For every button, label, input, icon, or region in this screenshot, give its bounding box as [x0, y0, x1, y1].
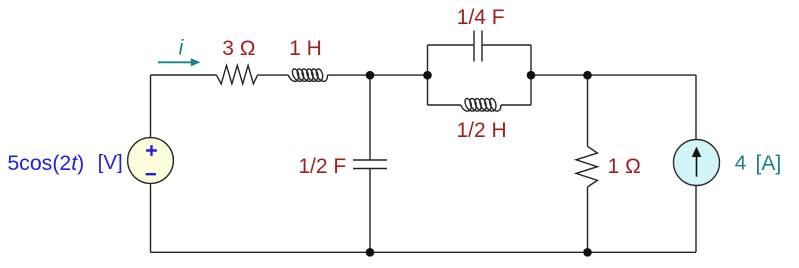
svg-text:1/4 F: 1/4 F — [457, 6, 505, 29]
svg-text:[V]: [V] — [98, 151, 123, 174]
svg-text:1 Ω: 1 Ω — [608, 155, 641, 178]
svg-text:1/2 H: 1/2 H — [456, 119, 506, 142]
svg-text:4: 4 — [735, 151, 747, 174]
svg-text:5cos(2t): 5cos(2t) — [7, 151, 84, 175]
svg-text:[A]: [A] — [756, 152, 782, 175]
svg-text:1/2 F: 1/2 F — [298, 155, 346, 178]
svg-text:3 Ω: 3 Ω — [222, 37, 255, 60]
svg-text:1 H: 1 H — [289, 37, 322, 60]
